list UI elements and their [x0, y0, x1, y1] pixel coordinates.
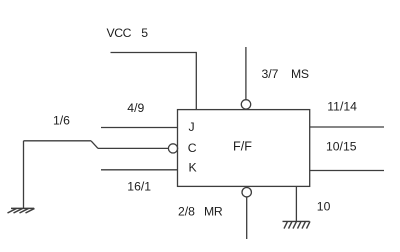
svg-text:2/8: 2/8	[178, 205, 195, 219]
wire diagonal bend	[91, 141, 98, 149]
label 2/8 MR	[178, 205, 223, 219]
svg-text:10/15: 10/15	[326, 140, 357, 154]
op-amp box F/F flip-flop U1	[178, 110, 310, 187]
wire MR vertical	[246, 197, 248, 239]
svg-text:MR: MR	[204, 205, 223, 219]
svg-text:4/9: 4/9	[127, 101, 144, 115]
svg-text:1/6: 1/6	[53, 114, 70, 128]
wire MS vertical	[245, 47, 247, 100]
pin label C	[188, 141, 197, 155]
wire right vertical to ground	[295, 186, 297, 221]
wire VCC vertical	[195, 52, 197, 110]
svg-text:10: 10	[317, 199, 331, 213]
label 1/6	[53, 114, 70, 128]
svg-text:VCC: VCC	[107, 26, 132, 40]
wire output Q	[310, 126, 384, 128]
label 10	[317, 199, 331, 213]
wire C input	[98, 147, 168, 149]
wire J input	[101, 127, 178, 129]
bubble MR	[242, 188, 251, 197]
ground right	[283, 221, 311, 228]
label 16/1	[127, 180, 151, 194]
label F/F	[233, 139, 252, 153]
label 10/15	[326, 140, 357, 154]
label 11/14	[327, 99, 357, 113]
svg-text:C: C	[188, 141, 197, 155]
bubble MS	[241, 100, 250, 109]
svg-text:MS: MS	[291, 67, 309, 81]
svg-text:F/F: F/F	[233, 139, 252, 153]
svg-text:11/14: 11/14	[327, 99, 357, 113]
svg-text:3/7: 3/7	[262, 67, 279, 81]
ground left	[8, 208, 35, 213]
svg-text:K: K	[189, 161, 197, 175]
wire VCC horizontal	[111, 52, 197, 54]
label 4/9	[127, 101, 144, 115]
label 3/7 MS	[262, 67, 309, 81]
wire left vertical to ground	[23, 141, 25, 208]
pin label J	[189, 120, 195, 134]
svg-text:16/1: 16/1	[127, 180, 151, 194]
svg-text:J: J	[189, 120, 195, 134]
label VCC 5	[107, 26, 149, 40]
pin label K	[189, 161, 197, 175]
wire 1/6 horizontal	[24, 140, 92, 142]
wire output Qbar	[310, 170, 384, 172]
wire K input	[101, 169, 178, 171]
svg-text:5: 5	[141, 26, 148, 40]
bubble C input	[168, 144, 177, 153]
